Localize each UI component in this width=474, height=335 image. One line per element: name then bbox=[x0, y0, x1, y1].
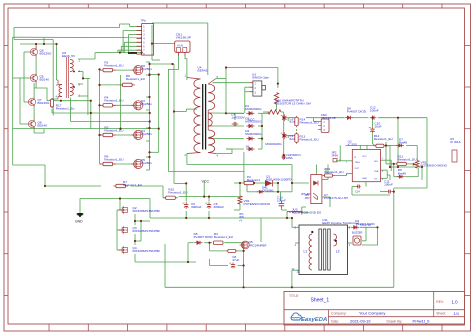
svg-text:IRF3205ZSTRLPBF: IRF3205ZSTRLPBF bbox=[133, 229, 161, 233]
svg-text:L1: L1 bbox=[304, 249, 308, 253]
svg-text:3000uF: 3000uF bbox=[191, 205, 202, 209]
svg-text:EasyEDA: EasyEDA bbox=[301, 317, 327, 323]
svg-text:GND: GND bbox=[75, 220, 83, 224]
svg-text:CV: CV bbox=[374, 179, 378, 181]
svg-text:Your Company: Your Company bbox=[359, 311, 385, 316]
svg-text:Sheet_1: Sheet_1 bbox=[311, 298, 330, 304]
svg-text:MUR2020G: MUR2020G bbox=[245, 132, 262, 136]
svg-text:IRF3205ZSTRLPBF: IRF3205ZSTRLPBF bbox=[133, 209, 161, 213]
svg-text:BD139G: BD139G bbox=[38, 101, 50, 105]
svg-text:BD140: BD140 bbox=[40, 78, 50, 82]
svg-text:VN3.96-3P: VN3.96-3P bbox=[321, 116, 336, 120]
svg-text:VCC: VCC bbox=[202, 180, 210, 184]
svg-text:EE35 Impulse Transformer: EE35 Impulse Transformer bbox=[322, 221, 359, 225]
svg-text:Pr4w1t_0: Pr4w1t_0 bbox=[413, 319, 431, 324]
svg-text:Resistor1_EU: Resistor1_EU bbox=[325, 170, 344, 174]
svg-text:100nF: 100nF bbox=[277, 199, 286, 203]
svg-text:Bat48: Bat48 bbox=[399, 141, 407, 145]
svg-text:Resistor1_EU: Resistor1_EU bbox=[398, 158, 417, 162]
svg-text:MUR2020G: MUR2020G bbox=[245, 107, 262, 111]
svg-text:BD139G: BD139G bbox=[40, 52, 52, 56]
svg-text:RESISTOR 15 OHM / 5W: RESISTOR 15 OHM / 5W bbox=[275, 102, 310, 106]
svg-text:JPIN: JPIN bbox=[331, 153, 338, 157]
svg-text:IRF3205ZSTRLPBF: IRF3205ZSTRLPBF bbox=[133, 249, 161, 253]
svg-text:REJU4TOR GND EG: REJU4TOR GND EG bbox=[292, 211, 322, 215]
svg-text:125A: 125A bbox=[286, 156, 294, 160]
svg-text:Resistor1_EU: Resistor1_EU bbox=[123, 183, 142, 187]
svg-text:7Pin: 7Pin bbox=[140, 19, 146, 23]
svg-text:Drawn By:: Drawn By: bbox=[387, 319, 403, 323]
svg-text:Resistor1_EU: Resistor1_EU bbox=[126, 77, 145, 81]
svg-text:PC8117S-GU-SH: PC8117S-GU-SH bbox=[324, 196, 348, 200]
svg-text:Resistor1_EU: Resistor1_EU bbox=[168, 190, 187, 194]
svg-text:EER42: EER42 bbox=[198, 69, 208, 73]
svg-text:2021-09-19: 2021-09-19 bbox=[350, 319, 371, 324]
svg-text:Bat48: Bat48 bbox=[398, 171, 406, 175]
svg-text:OUT: OUT bbox=[355, 168, 360, 170]
svg-text:irfp250n: irfp250n bbox=[141, 67, 152, 71]
svg-text:Resistor1_EU: Resistor1_EU bbox=[104, 158, 123, 162]
svg-text:Resistor1_EU: Resistor1_EU bbox=[374, 137, 393, 141]
svg-text:THR: THR bbox=[374, 171, 379, 173]
svg-text:EE16_5V: EE16_5V bbox=[62, 54, 76, 58]
svg-text:MUR2020G: MUR2020G bbox=[265, 142, 282, 146]
svg-text:100nF: 100nF bbox=[370, 109, 379, 113]
svg-text:3000uF: 3000uF bbox=[214, 205, 225, 209]
svg-text:D4: D4 bbox=[246, 145, 250, 149]
svg-text:VN3.96-3P: VN3.96-3P bbox=[176, 36, 191, 40]
svg-text:Resistor1_EU: Resistor1_EU bbox=[104, 63, 123, 67]
svg-text:1.0: 1.0 bbox=[452, 300, 459, 305]
svg-text:BD140: BD140 bbox=[38, 124, 48, 128]
svg-text:VCC: VCC bbox=[248, 118, 255, 122]
svg-text:IC 555: IC 555 bbox=[348, 143, 357, 147]
svg-text:Pv4007 DIOD: Pv4007 DIOD bbox=[194, 235, 214, 239]
svg-text:+V: +V bbox=[239, 218, 243, 222]
svg-text:BUZZER: BUZZER bbox=[352, 231, 363, 235]
svg-text:+RC24NPBF: +RC24NPBF bbox=[249, 243, 267, 247]
svg-text:100nF: 100nF bbox=[384, 183, 393, 187]
svg-text:Resistor1_EU: Resistor1_EU bbox=[214, 235, 233, 239]
svg-text:Resistor1_Eu: Resistor1_Eu bbox=[56, 107, 75, 111]
svg-text:irfp250n: irfp250n bbox=[141, 102, 152, 106]
svg-text:47uF: 47uF bbox=[232, 258, 239, 262]
svg-text:TRIG: TRIG bbox=[355, 162, 361, 164]
svg-text:DIS: DIS bbox=[374, 161, 378, 163]
svg-text:GND: GND bbox=[362, 178, 367, 180]
svg-text:irfp250n: irfp250n bbox=[141, 161, 152, 165]
svg-text:C14: C14 bbox=[355, 191, 360, 194]
svg-text:SWICH 3pin: SWICH 3pin bbox=[252, 76, 269, 80]
svg-text:Resistor1: Resistor1 bbox=[247, 178, 260, 182]
svg-text:3.3mH C8: 3.3mH C8 bbox=[360, 224, 371, 227]
svg-text:POTENSIO MONO: POTENSIO MONO bbox=[421, 164, 448, 168]
svg-text:Sheet:: Sheet: bbox=[436, 312, 446, 316]
svg-text:Pv4007 DIOD: Pv4007 DIOD bbox=[347, 110, 367, 114]
svg-text:1/1: 1/1 bbox=[454, 311, 460, 316]
svg-text:CR2060: CR2060 bbox=[262, 189, 274, 193]
svg-text:+V IN: +V IN bbox=[177, 45, 183, 48]
svg-text:JPN: JPN bbox=[305, 196, 310, 200]
svg-text:REV:: REV: bbox=[436, 300, 444, 304]
svg-text:TITLE:: TITLE: bbox=[289, 294, 299, 298]
svg-text:IC W1A: IC W1A bbox=[450, 140, 462, 144]
svg-text:VCC: VCC bbox=[362, 156, 367, 158]
svg-text:Resistor1_EU: Resistor1_EU bbox=[300, 121, 319, 125]
svg-text:irfp250n: irfp250n bbox=[141, 132, 152, 136]
svg-text:MJE W99-1200FD: MJE W99-1200FD bbox=[266, 177, 292, 181]
svg-text:L2: L2 bbox=[336, 249, 340, 253]
svg-text:Company:: Company: bbox=[331, 311, 347, 315]
svg-text:1uF/250V: 1uF/250V bbox=[231, 116, 245, 120]
svg-text:Resistor1_EU: Resistor1_EU bbox=[300, 138, 319, 142]
svg-text:Date:: Date: bbox=[331, 319, 339, 323]
svg-text:POTENSIO-MONO: POTENSIO-MONO bbox=[244, 202, 271, 206]
svg-text:10uF: 10uF bbox=[375, 124, 382, 128]
svg-text:Resistor1_EU: Resistor1_EU bbox=[104, 99, 123, 103]
